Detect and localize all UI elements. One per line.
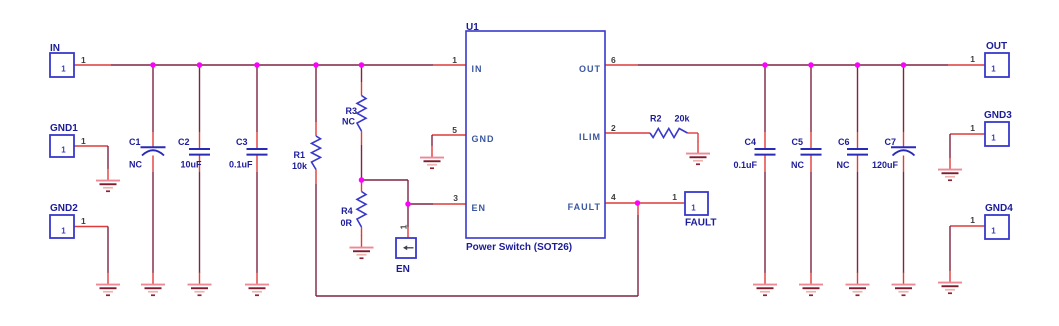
svg-text:C6: C6 (838, 137, 850, 147)
svg-text:1: 1 (61, 65, 66, 74)
svg-text:IN: IN (50, 43, 60, 54)
svg-text:1: 1 (970, 215, 975, 225)
svg-text:C5: C5 (791, 137, 803, 147)
svg-text:1: 1 (970, 123, 975, 133)
svg-text:1: 1 (81, 136, 86, 146)
svg-text:U1: U1 (466, 22, 479, 33)
svg-text:GND2: GND2 (50, 203, 78, 214)
svg-text:FAULT: FAULT (568, 202, 601, 212)
svg-text:NC: NC (837, 160, 850, 170)
svg-text:C3: C3 (236, 137, 248, 147)
svg-text:1: 1 (61, 146, 66, 155)
svg-text:NC: NC (342, 117, 355, 127)
svg-text:R4: R4 (341, 206, 353, 216)
svg-text:EN: EN (396, 264, 410, 275)
svg-text:3: 3 (453, 193, 458, 203)
svg-text:C2: C2 (178, 137, 190, 147)
svg-text:2: 2 (611, 123, 616, 133)
svg-text:R1: R1 (293, 150, 305, 160)
svg-text:20k: 20k (675, 114, 691, 124)
svg-text:R2: R2 (650, 114, 662, 124)
svg-text:C7: C7 (884, 137, 896, 147)
svg-text:120uF: 120uF (872, 160, 899, 170)
svg-text:6: 6 (611, 55, 616, 65)
svg-text:C1: C1 (129, 137, 141, 147)
svg-text:10k: 10k (292, 161, 308, 171)
svg-text:1: 1 (399, 224, 409, 229)
svg-text:1: 1 (970, 54, 975, 64)
svg-text:GND: GND (472, 134, 495, 144)
svg-text:OUT: OUT (579, 64, 601, 74)
svg-text:GND4: GND4 (985, 203, 1013, 214)
svg-text:0.1uF: 0.1uF (733, 160, 757, 170)
svg-text:NC: NC (129, 160, 142, 170)
svg-text:4: 4 (611, 192, 616, 202)
svg-text:1: 1 (991, 134, 996, 143)
svg-text:0.1uF: 0.1uF (229, 160, 253, 170)
svg-text:0R: 0R (340, 218, 352, 228)
svg-text:ILIM: ILIM (579, 132, 601, 142)
svg-text:1: 1 (991, 227, 996, 236)
svg-text:C4: C4 (744, 137, 756, 147)
svg-text:R3: R3 (345, 106, 357, 116)
svg-text:IN: IN (472, 64, 483, 74)
svg-text:FAULT: FAULT (685, 218, 716, 229)
svg-text:1: 1 (672, 192, 677, 202)
svg-text:1: 1 (61, 227, 66, 236)
svg-text:1: 1 (991, 65, 996, 74)
svg-text:Power Switch (SOT26): Power Switch (SOT26) (466, 242, 572, 253)
svg-text:GND3: GND3 (984, 110, 1012, 121)
svg-text:1: 1 (691, 204, 696, 213)
svg-text:10uF: 10uF (180, 160, 202, 170)
svg-text:GND1: GND1 (50, 123, 78, 134)
svg-text:1: 1 (81, 216, 86, 226)
svg-text:OUT: OUT (986, 41, 1007, 52)
svg-text:NC: NC (791, 160, 804, 170)
svg-text:5: 5 (452, 125, 457, 135)
svg-text:EN: EN (472, 203, 487, 213)
svg-text:1: 1 (81, 55, 86, 65)
svg-text:1: 1 (452, 55, 457, 65)
